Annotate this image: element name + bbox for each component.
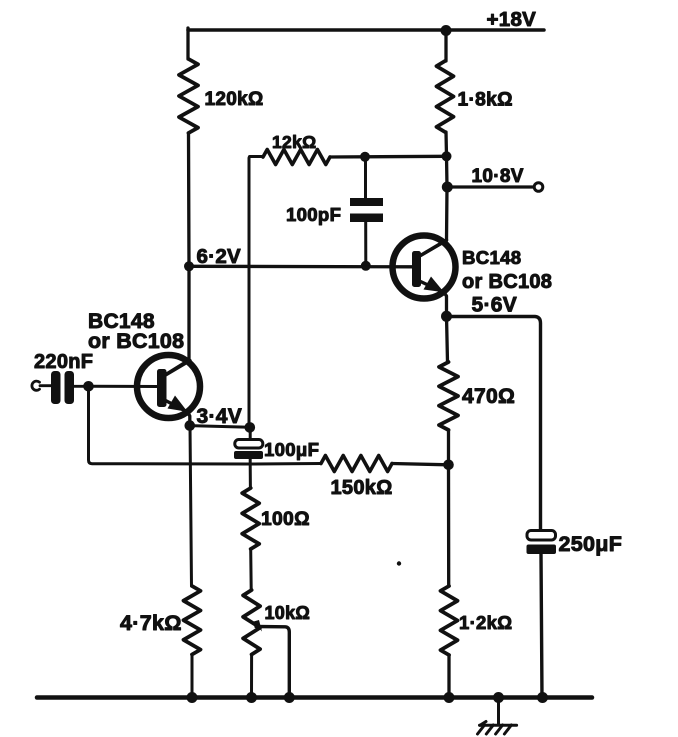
wire 3.4V to 100uF top <box>190 426 250 428</box>
svg-text:220nF: 220nF <box>34 351 93 373</box>
resistor 150k <box>321 456 392 472</box>
wire right rail to 1.8k <box>444 28 447 61</box>
svg-text:10kΩ: 10kΩ <box>265 603 311 623</box>
node rail 1.2k <box>444 692 455 703</box>
wire 5.6V down to 470 <box>447 316 448 362</box>
svg-text:100pF: 100pF <box>286 204 341 225</box>
svg-text:5·6V: 5·6V <box>472 294 518 317</box>
wire 120k to 6.2V node <box>187 133 191 266</box>
transistor Q1 emitter arrowhead <box>168 396 188 412</box>
wire collector node to Q2 <box>422 187 448 255</box>
node rail 4.7k <box>187 692 198 703</box>
transistor Q2 collector stroke <box>421 240 447 256</box>
node rail wiper <box>284 692 295 703</box>
svg-text:470Ω: 470Ω <box>462 385 515 408</box>
svg-text:1·2kΩ: 1·2kΩ <box>459 612 512 633</box>
svg-text:+18V: +18V <box>487 8 537 31</box>
ground symbol <box>478 698 517 735</box>
resistor 10k potentiometer track <box>243 590 260 655</box>
wire 1.8k to collector node <box>444 132 448 156</box>
resistor 4.7k <box>184 586 201 655</box>
transistor Q2 emitter arrowhead <box>424 277 445 293</box>
node 3.4V <box>185 420 196 431</box>
svg-text:6·2V: 6·2V <box>197 245 242 268</box>
wire 150k to feedback node <box>392 464 449 465</box>
node rail 10k <box>246 692 257 703</box>
node 100pF top <box>360 152 370 162</box>
wire 100pF lower lead <box>364 222 367 266</box>
stray print dot <box>397 561 401 565</box>
wire 250uF to rail <box>541 554 542 698</box>
wire 5.6V to 250uF branch <box>447 317 541 531</box>
wire 10.8V output <box>447 185 533 188</box>
wire Q2 emitter to 5.6V node <box>444 293 447 317</box>
svg-text:10·8V: 10·8V <box>472 166 524 187</box>
svg-text:100μF: 100μF <box>264 439 319 460</box>
terminal output circle <box>534 183 543 192</box>
transistor Q1 base bar <box>157 369 167 407</box>
wire 100ohm to 10k <box>249 549 253 590</box>
wire 4.7k to rail <box>191 655 194 698</box>
wire 3.4V node down to 4.7k <box>190 426 192 586</box>
svg-text:120kΩ: 120kΩ <box>205 89 264 110</box>
wire cap to base node <box>74 385 88 388</box>
svg-text:150kΩ: 150kΩ <box>331 477 393 499</box>
wire Q2 base from 6.2V node <box>189 265 412 269</box>
svg-text:100Ω: 100Ω <box>261 509 310 530</box>
wire 100pF upper lead <box>364 157 367 198</box>
svg-text:12kΩ: 12kΩ <box>272 132 316 152</box>
transistor Q2 emitter stroke <box>421 282 445 293</box>
wire down to 1.2k <box>447 465 451 586</box>
wire node to 10.8V node <box>445 156 449 187</box>
node 100pF bottom on base wire <box>361 261 371 271</box>
resistor 1.2k <box>441 586 458 655</box>
wire 12k to junctions <box>330 155 447 159</box>
node 10.8V <box>442 182 453 193</box>
node 5.6V <box>441 311 452 322</box>
wire 100ohm upper lead <box>249 464 252 488</box>
wire 100uF lower lead to feedback wire <box>249 459 252 464</box>
transistor Q1 emitter stroke <box>166 401 188 413</box>
resistor 12k <box>263 150 330 165</box>
wire 12k branch left vertical <box>249 157 263 428</box>
resistor 1.8k <box>437 61 454 132</box>
terminal input circle <box>32 381 40 390</box>
transistor Q1 collector stroke <box>166 361 191 376</box>
node Q1 base input <box>83 381 94 392</box>
resistor 470 <box>439 362 458 430</box>
wire 470 to feedback node <box>447 430 450 465</box>
wire 1.2k to ground rail <box>447 655 450 698</box>
wire Q1 base down <box>89 386 251 464</box>
capacitor 220nF <box>51 371 61 404</box>
svg-text:250μF: 250μF <box>559 532 623 556</box>
transistor Q2 base bar <box>412 251 421 287</box>
wire input to cap <box>40 384 51 387</box>
wire Q1 emitter to 3.4V node <box>188 412 190 425</box>
transistor Q1 circle <box>137 355 200 418</box>
wire wiper to rail <box>256 627 289 698</box>
node feedback junction <box>443 460 454 471</box>
wire 10k bottom to rail <box>250 655 253 698</box>
node 12k/1.8k junction <box>442 151 452 161</box>
svg-text:4·7kΩ: 4·7kΩ <box>120 611 182 635</box>
node rail ground stub <box>493 692 504 703</box>
svg-text:1·8kΩ: 1·8kΩ <box>458 90 513 111</box>
capacitor 100pF <box>350 198 383 206</box>
wire ground rail <box>37 695 592 700</box>
svg-text:BC148: BC148 <box>462 247 521 268</box>
wire top supply rail <box>188 28 544 32</box>
wire base node to Q1 <box>89 385 158 388</box>
svg-text:or BC108: or BC108 <box>88 329 184 353</box>
wire left rail top segment <box>186 28 189 59</box>
resistor 120k <box>179 59 198 133</box>
node rail 250uF <box>537 692 548 703</box>
wiper arrowhead <box>254 620 263 632</box>
wire 100uF upper lead <box>249 427 252 439</box>
resistor 100ohm <box>242 488 259 549</box>
node 6.2V <box>184 261 194 271</box>
transistor Q2 circle <box>393 236 456 299</box>
wire Q1 collector <box>167 266 190 374</box>
capacitor 100uF <box>235 440 263 449</box>
svg-text:or BC108: or BC108 <box>462 271 552 293</box>
wire feedback to 150k <box>250 462 321 466</box>
node 100uF top <box>245 422 256 433</box>
capacitor 250uF <box>527 531 556 541</box>
node +18V junction <box>441 25 452 36</box>
